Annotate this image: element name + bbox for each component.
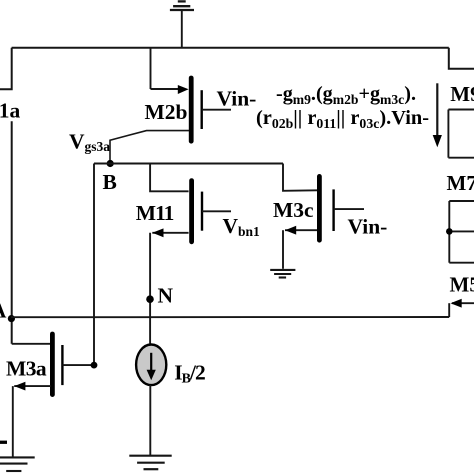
node B junction dot (107, 160, 114, 167)
wire: top-right corner to right edge (449, 48, 474, 69)
svg-text:B: B (103, 170, 117, 194)
wire: node B horizontal rail (94, 163, 283, 165)
svg-text:N: N (158, 283, 174, 307)
wire: M11 source down through node N to current source (149, 233, 151, 345)
wire: top rail (12, 47, 449, 49)
wire: M11 drain drop from B rail (150, 164, 189, 192)
wire: node A long horizontal rail to M5 (11, 316, 449, 318)
transistor M11 (192, 181, 231, 242)
wire: M2b drain arm (151, 88, 180, 90)
node dot: M3a gate to node B wire (91, 362, 98, 369)
ground (M3a) (0, 457, 35, 471)
wire: M3c source arm with arrow (285, 229, 317, 231)
svg-text:M3c: M3c (273, 198, 314, 222)
svg-text:IB/2: IB/2 (174, 361, 205, 387)
ground (M3c) (270, 270, 295, 278)
wire: M3c source down to ground (282, 230, 284, 269)
wire: M3a source arm with arrow (14, 385, 51, 387)
ground (top rail, flipped earth symbol) (170, 1, 194, 10)
wire: M3c drain drop from B rail (283, 164, 317, 191)
node N junction dot (146, 295, 154, 303)
svg-text:M2b: M2b (145, 100, 188, 124)
transistor M3c (319, 176, 364, 240)
wire: M3a drain arm from left vertical (12, 343, 51, 345)
wire: M2b source arm + diagonal to node Vgs3a (110, 131, 189, 164)
wire: M3a source down to ground (12, 386, 14, 457)
wire: ground stem to top rail (181, 10, 183, 49)
signal flow down-arrow (436, 83, 438, 136)
svg-text:M5: M5 (450, 273, 474, 297)
svg-text:M11: M11 (136, 201, 174, 225)
wire: M2b drain drop from rail (150, 48, 152, 89)
node dot on M7 gate tie (446, 228, 453, 235)
wire: node B vertical down to M3a gate (93, 164, 95, 366)
wire: current source to ground (149, 385, 151, 456)
svg-text:M1a: M1a (0, 98, 21, 122)
wire: top-left corner down to left stub (0, 48, 12, 89)
svg-text:M9: M9 (450, 82, 474, 106)
wire: M5 down to node A rail (448, 303, 450, 317)
wire: left vertical from M1a down to node A and M3a drain (11, 121, 13, 343)
stray minus (cut label at left edge) (0, 441, 7, 444)
svg-text:A: A (0, 299, 7, 323)
svg-text:M7: M7 (447, 171, 474, 195)
transistor M9 (cut off at right edge) (448, 110, 474, 158)
transistor M2b (191, 78, 231, 141)
current source IB/2 (136, 345, 166, 386)
wire: M5 source arm with arrow (cut off at right edge) (452, 302, 474, 304)
node A junction dot (8, 315, 15, 322)
transistor M7 (cut off at right edge, diode connected) (449, 201, 474, 263)
wire: M11 source arm with arrow (152, 232, 188, 234)
svg-text:Vin-: Vin- (217, 87, 257, 111)
svg-text:Vin-: Vin- (348, 215, 388, 239)
arrow into M2b drain (178, 85, 189, 94)
svg-text:M3a: M3a (6, 357, 47, 381)
transistor M3a (52, 334, 94, 395)
ground (IB/2) (129, 456, 171, 470)
